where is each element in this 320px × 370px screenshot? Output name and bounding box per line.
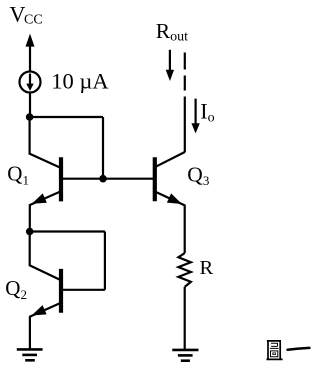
current source I1 circle xyxy=(20,72,41,93)
svg-text:Io: Io xyxy=(200,99,214,126)
wire resistor to ground xyxy=(184,287,186,350)
Q1 collector diagonal xyxy=(29,153,61,168)
svg-text:10 µA: 10 µA xyxy=(51,68,109,93)
wire Q3 collector up (solid) xyxy=(184,97,186,153)
Q1 emitter diagonal xyxy=(29,191,61,205)
ground under Q2 xyxy=(17,349,43,360)
wire down to base rail xyxy=(102,117,104,179)
wire source to node A xyxy=(29,93,31,118)
node B junction dot xyxy=(26,228,34,236)
base rail junction dot xyxy=(99,175,107,183)
current source inner arrow shaft xyxy=(29,74,31,86)
wire dashed Rout probe xyxy=(184,53,186,70)
Io arrow shaft xyxy=(195,99,197,124)
Q3 emitter diagonal xyxy=(155,192,186,206)
svg-text:Q1: Q1 xyxy=(7,162,29,188)
wire Q3 emitter down to resistor xyxy=(184,205,186,253)
Rout arrowhead xyxy=(166,70,174,81)
figure caption 圖一 (drawn strokes) xyxy=(266,341,309,360)
Q1 emitter arrowhead xyxy=(30,193,47,208)
resistor R zigzag xyxy=(178,253,191,287)
svg-text:R: R xyxy=(200,257,214,279)
svg-text:Q2: Q2 xyxy=(5,276,27,302)
wire down right side of Q2 loop xyxy=(104,232,106,290)
wire Q2 base xyxy=(61,289,105,291)
wire node B down to Q2 collector xyxy=(29,232,31,266)
transistor Q2 bar xyxy=(59,269,63,313)
圖 inner lower inner tick xyxy=(273,353,276,355)
wire node A down to Q1 collector xyxy=(29,117,31,154)
node A junction dot xyxy=(26,113,34,121)
transistor Q3 bar xyxy=(153,157,157,201)
Q2 collector diagonal xyxy=(29,265,61,280)
Q3 emitter arrowhead xyxy=(167,193,184,208)
一 stroke xyxy=(288,348,310,350)
VCC arrowhead xyxy=(26,34,35,47)
wire node A to right xyxy=(30,116,103,118)
Q2 emitter arrowhead xyxy=(30,305,47,320)
Rout arrow shaft xyxy=(169,50,171,71)
wire VCC arrow shaft xyxy=(29,46,31,72)
svg-text:Rout: Rout xyxy=(156,19,188,45)
圖 inner top mouth xyxy=(271,343,278,346)
圖 inner middle stroke xyxy=(270,347,279,349)
圖 inner lower square xyxy=(271,351,278,357)
wire Q1 emitter down to node B xyxy=(29,205,31,232)
Q3 collector diagonal xyxy=(155,152,185,167)
ground under R xyxy=(172,350,198,361)
Io arrowhead xyxy=(191,123,199,133)
wire node B right xyxy=(30,230,105,232)
svg-text:VCC: VCC xyxy=(10,2,43,28)
Q2 emitter diagonal xyxy=(29,303,61,317)
current source arrowhead xyxy=(26,84,33,91)
base rail Q1-Q3 xyxy=(61,178,155,180)
transistor Q1 bar xyxy=(59,157,63,201)
svg-text:Q3: Q3 xyxy=(187,163,209,189)
wire Q2 emitter to ground xyxy=(29,316,31,349)
圖 outer box xyxy=(266,341,282,360)
